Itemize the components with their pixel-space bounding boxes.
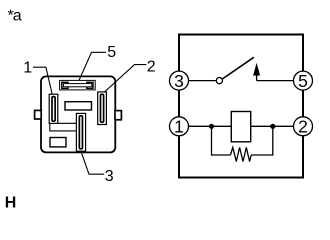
resistor zigzag bbox=[230, 147, 251, 161]
small cavity rect bbox=[50, 138, 66, 147]
leader line 3 bbox=[81, 151, 104, 174]
terminal circle 2 bbox=[294, 117, 313, 136]
switch arrow bbox=[256, 75, 258, 81]
schematic box bbox=[179, 35, 303, 178]
svg-text:1: 1 bbox=[174, 117, 184, 137]
terminal 1 blade bbox=[52, 97, 55, 122]
terminal circle 3 bbox=[170, 71, 189, 90]
relay body bbox=[41, 76, 115, 152]
terminal 1 cavity outer bbox=[49, 94, 58, 123]
wire 1 to coil bbox=[189, 125, 232, 127]
terminal 5 cavity outer bbox=[60, 80, 96, 90]
terminal 2 cavity outer bbox=[98, 92, 107, 125]
resistor branch left drop bbox=[212, 126, 231, 155]
svg-text:5: 5 bbox=[298, 71, 308, 91]
terminal 5 left end cap bbox=[62, 82, 68, 88]
svg-text:H: H bbox=[5, 194, 17, 210]
junction dot right bbox=[270, 124, 275, 129]
wire 3 to switch pivot bbox=[189, 80, 217, 82]
key slot rect bbox=[65, 102, 92, 110]
terminal 5 right end cap bbox=[87, 82, 93, 88]
leader line 5 bbox=[79, 52, 106, 80]
right mounting tab bbox=[115, 111, 121, 120]
relay coil bbox=[231, 112, 250, 142]
svg-text:5: 5 bbox=[107, 44, 116, 61]
resistor branch right drop bbox=[251, 126, 273, 155]
leader line 1 bbox=[33, 67, 52, 94]
junction dot left bbox=[209, 124, 214, 129]
terminal circle 5 bbox=[294, 71, 313, 90]
terminal 3 cavity outer bbox=[76, 113, 85, 151]
switch pivot bbox=[216, 78, 222, 84]
svg-text:3: 3 bbox=[105, 168, 114, 185]
svg-text:2: 2 bbox=[298, 117, 308, 137]
left mounting tab bbox=[35, 110, 42, 119]
svg-text:*a: *a bbox=[8, 7, 22, 24]
terminal 5 blade bbox=[63, 84, 91, 87]
wire coil to 2 bbox=[251, 125, 294, 127]
terminal 2 blade bbox=[101, 94, 104, 122]
wire arrow to 5 bbox=[257, 80, 294, 82]
svg-text:2: 2 bbox=[147, 59, 156, 76]
leader line 2 bbox=[105, 65, 147, 92]
step line lower bbox=[50, 124, 77, 131]
terminal 3 blade bbox=[79, 116, 82, 149]
svg-text:3: 3 bbox=[174, 71, 184, 91]
step line upper bbox=[58, 122, 77, 124]
terminal circle 1 bbox=[170, 117, 189, 136]
switch arm bbox=[222, 57, 254, 79]
svg-text:1: 1 bbox=[23, 59, 32, 76]
